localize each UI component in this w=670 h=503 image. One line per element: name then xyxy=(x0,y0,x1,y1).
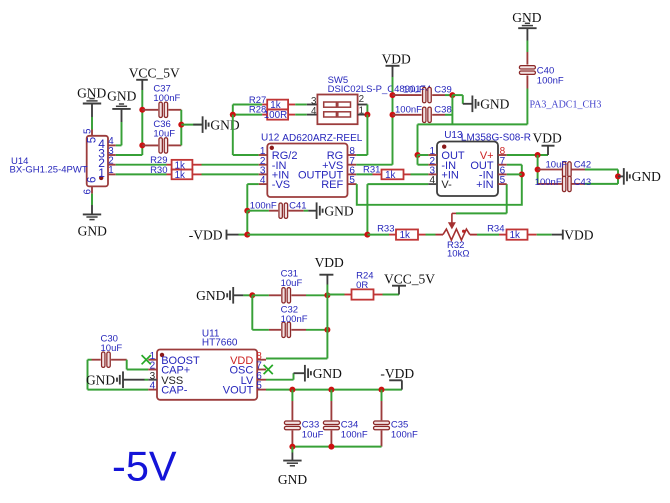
svg-text:5: 5 xyxy=(87,137,99,143)
svg-text:VDD: VDD xyxy=(564,227,593,242)
svg-text:5: 5 xyxy=(83,128,94,134)
svg-text:4: 4 xyxy=(311,106,317,117)
svg-text:GND: GND xyxy=(78,223,107,238)
svg-text:CAP-: CAP- xyxy=(161,385,188,397)
svg-text:REF: REF xyxy=(321,179,343,191)
svg-text:R34: R34 xyxy=(487,223,504,234)
svg-text:C38: C38 xyxy=(434,105,451,116)
svg-text:R30: R30 xyxy=(150,165,167,176)
svg-text:GND: GND xyxy=(210,117,239,132)
svg-text:10uF: 10uF xyxy=(403,85,425,96)
svg-text:1k: 1k xyxy=(400,230,410,241)
svg-text:VCC_5V: VCC_5V xyxy=(129,66,180,81)
svg-text:GND: GND xyxy=(313,366,342,381)
svg-text:R33: R33 xyxy=(377,223,394,234)
svg-text:-VS: -VS xyxy=(272,179,290,191)
svg-text:10uF: 10uF xyxy=(153,129,175,140)
svg-text:1k: 1k xyxy=(175,170,185,181)
svg-text:C42: C42 xyxy=(574,160,591,171)
svg-text:1: 1 xyxy=(108,165,113,176)
svg-text:C39: C39 xyxy=(434,85,451,96)
svg-text:5: 5 xyxy=(349,175,355,186)
svg-text:-VDD: -VDD xyxy=(380,366,414,381)
svg-text:GND: GND xyxy=(278,472,307,487)
svg-text:100nF: 100nF xyxy=(153,93,180,104)
svg-text:GND: GND xyxy=(324,204,353,219)
svg-text:1: 1 xyxy=(359,105,364,116)
svg-text:AD620ARZ-REEL: AD620ARZ-REEL xyxy=(282,133,362,144)
svg-text:5: 5 xyxy=(500,175,506,186)
svg-text:100R: 100R xyxy=(264,110,287,121)
svg-text:-5V: -5V xyxy=(112,443,177,490)
svg-text:C43: C43 xyxy=(574,177,591,188)
svg-text:2: 2 xyxy=(359,94,364,105)
svg-text:GND: GND xyxy=(196,288,225,303)
svg-text:V-: V- xyxy=(441,179,452,191)
svg-text:10uF: 10uF xyxy=(281,278,303,289)
svg-text:VOUT: VOUT xyxy=(223,385,254,397)
svg-text:VDD: VDD xyxy=(315,255,344,270)
svg-text:100nF: 100nF xyxy=(537,75,564,86)
svg-text:100nF: 100nF xyxy=(395,105,422,116)
svg-text:GND: GND xyxy=(107,89,136,104)
svg-text:10uF: 10uF xyxy=(302,429,324,440)
svg-text:4: 4 xyxy=(430,175,436,186)
svg-text:100nF: 100nF xyxy=(341,429,368,440)
svg-text:5: 5 xyxy=(256,381,262,392)
svg-text:100nF: 100nF xyxy=(281,314,308,325)
svg-text:+IN: +IN xyxy=(476,179,493,191)
svg-text:VDD: VDD xyxy=(382,51,411,66)
svg-text:10uF: 10uF xyxy=(546,160,568,171)
svg-text:BX-GH1.25-4PWT: BX-GH1.25-4PWT xyxy=(10,165,88,176)
svg-text:10kΩ: 10kΩ xyxy=(447,249,469,260)
svg-text:6: 6 xyxy=(87,177,99,183)
svg-text:C41: C41 xyxy=(289,200,306,211)
svg-text:100nF: 100nF xyxy=(535,177,562,188)
svg-text:4: 4 xyxy=(150,381,156,392)
svg-text:VCC_5V: VCC_5V xyxy=(384,272,435,287)
svg-text:1k: 1k xyxy=(510,230,520,241)
svg-text:1k: 1k xyxy=(385,170,395,181)
svg-text:PA3_ADC1_CH3: PA3_ADC1_CH3 xyxy=(530,99,602,110)
svg-text:GND: GND xyxy=(86,373,115,388)
svg-text:GND: GND xyxy=(632,169,661,184)
svg-text:GND: GND xyxy=(480,97,509,112)
svg-text:100nF: 100nF xyxy=(391,429,418,440)
svg-text:VDD: VDD xyxy=(533,131,562,146)
svg-text:HT7660: HT7660 xyxy=(202,338,238,349)
svg-text:-VDD: -VDD xyxy=(189,227,223,242)
svg-text:100nF: 100nF xyxy=(250,200,277,211)
svg-text:4: 4 xyxy=(260,175,266,186)
svg-text:U12: U12 xyxy=(261,132,280,143)
svg-text:1: 1 xyxy=(98,166,105,180)
